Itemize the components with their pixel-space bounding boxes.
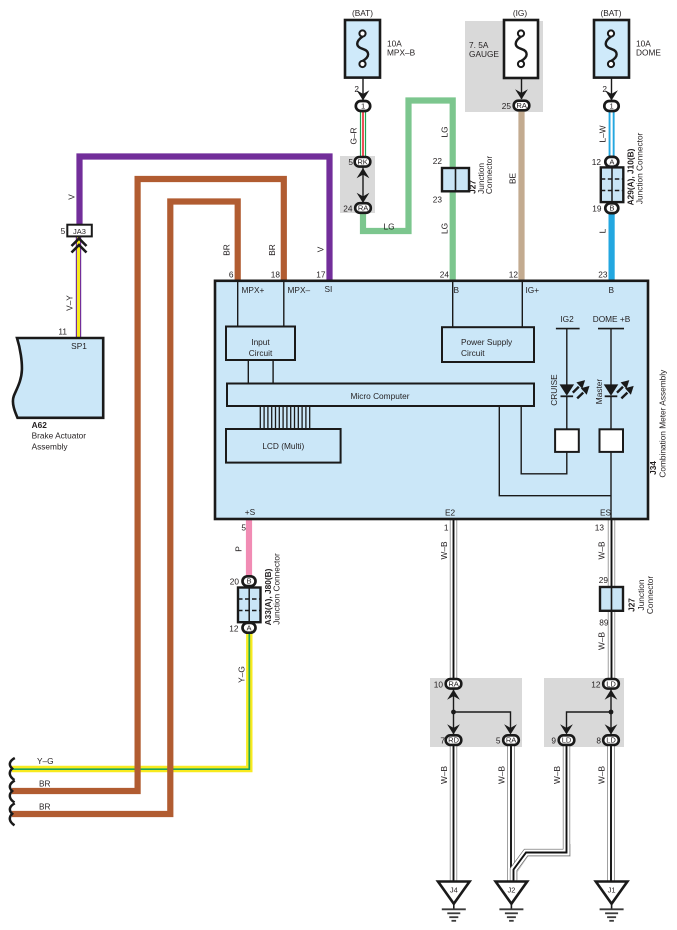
- wire W-B from RD(7) to ground J4: [450, 746, 457, 882]
- wire master LED to driver box: [610, 396, 612, 430]
- oval RA 5: [496, 724, 519, 745]
- svg-text:+S: +S: [245, 507, 256, 517]
- svg-text:RK: RK: [357, 157, 367, 166]
- IG2 terminal bar: [556, 328, 580, 330]
- svg-text:V: V: [67, 194, 77, 200]
- svg-text:1: 1: [609, 102, 613, 111]
- wire W-B from LD(9) jogging to ground J2: [514, 746, 567, 881]
- svg-text:DOME: DOME: [636, 47, 661, 57]
- svg-text:RA: RA: [516, 101, 527, 110]
- svg-text:10: 10: [434, 679, 444, 689]
- oval RD 7: [440, 724, 461, 745]
- svg-text:Master: Master: [594, 379, 604, 405]
- wire IG+ pin 12 to power supply: [521, 282, 523, 328]
- wire MPX- inside meter: [283, 282, 285, 327]
- svg-text:8: 8: [596, 736, 601, 746]
- wire B pin 24 to power supply: [452, 282, 454, 328]
- DOME +B terminal bar: [598, 328, 624, 330]
- svg-text:Circuit: Circuit: [461, 348, 485, 358]
- combination meter assembly box J34: [215, 281, 648, 519]
- svg-text:GAUGE: GAUGE: [469, 49, 499, 59]
- svg-text:V: V: [316, 246, 326, 252]
- wire cruise box to micro computer: [521, 406, 567, 474]
- svg-text:25: 25: [502, 101, 512, 111]
- svg-text:Junction Connector: Junction Connector: [635, 132, 645, 204]
- oval terminal 1 below DOME fuse: [604, 101, 618, 111]
- svg-text:LG: LG: [440, 223, 450, 234]
- svg-text:19: 19: [592, 204, 602, 214]
- connector pair RK/RA with mating arrows: [343, 157, 371, 214]
- svg-text:J34: J34: [648, 461, 658, 475]
- svg-text:P: P: [234, 546, 244, 552]
- svg-text:W–B: W–B: [597, 541, 607, 559]
- svg-text:A62: A62: [32, 420, 48, 430]
- svg-text:IG2: IG2: [560, 314, 574, 324]
- svg-text:BR: BR: [222, 244, 232, 256]
- oval LD 8: [596, 724, 618, 745]
- svg-text:23: 23: [598, 270, 608, 280]
- wire P pink from meter +S to A33 pin B(20): [246, 518, 252, 577]
- svg-text:5: 5: [241, 523, 246, 533]
- wire W-B from RA(5) to ground J2: [507, 746, 514, 882]
- svg-text:5: 5: [61, 226, 66, 236]
- svg-text:J1: J1: [608, 886, 616, 895]
- fuse 10A MPX-B: [345, 8, 416, 101]
- svg-text:(IG): (IG): [513, 8, 528, 18]
- svg-text:L–W: L–W: [598, 125, 608, 142]
- svg-text:Connector: Connector: [484, 156, 494, 195]
- svg-text:L: L: [598, 228, 608, 233]
- wire W-B from meter E2 to RA(10): [450, 518, 457, 679]
- wire Y-G from A33 pin A(12) to left edge: [12, 631, 249, 769]
- bus hatch lines between micro computer and LCD: [260, 406, 309, 429]
- LED Master: [604, 380, 634, 398]
- svg-text:LD: LD: [606, 679, 616, 688]
- svg-text:Y–G: Y–G: [236, 666, 246, 683]
- splice group ES: oval LD 12: [591, 679, 619, 734]
- gray panel behind IG fuse: [465, 21, 543, 112]
- svg-text:B: B: [247, 577, 252, 586]
- fuse 7.5A GAUGE: [469, 8, 538, 100]
- svg-text:SP1: SP1: [71, 341, 87, 351]
- wire W-B from meter ES to LD(12) via J27: [608, 518, 615, 679]
- wire L-W from oval 1 to A29 pin A(12): [609, 111, 615, 157]
- svg-text:12: 12: [509, 270, 519, 280]
- svg-text:W–B: W–B: [597, 766, 607, 784]
- wire W-B from LD(8) to ground J1: [607, 746, 614, 882]
- continuation squiggle BR upper: [10, 781, 15, 803]
- svg-text:J4: J4: [450, 886, 458, 895]
- svg-text:9: 9: [551, 736, 556, 746]
- svg-text:1: 1: [361, 102, 365, 111]
- oval terminal 1 below MPX-B fuse: [356, 101, 370, 111]
- cruise driver box: [555, 429, 579, 452]
- svg-text:(BAT): (BAT): [600, 8, 621, 18]
- junction connector A33(A), J80(B): [229, 553, 281, 633]
- svg-text:Connector: Connector: [645, 576, 655, 615]
- svg-text:BR: BR: [267, 244, 277, 256]
- svg-text:12: 12: [591, 679, 601, 689]
- svg-text:DOME +B: DOME +B: [593, 314, 631, 324]
- oval LD 9: [551, 724, 574, 745]
- svg-text:MPX–: MPX–: [288, 285, 311, 295]
- splice ES junction dot and branch: [567, 710, 614, 733]
- splice E2 junction dot and branch: [451, 710, 510, 733]
- svg-text:13: 13: [595, 523, 605, 533]
- svg-text:Input: Input: [251, 337, 270, 347]
- wire input to micro computer: [272, 360, 274, 384]
- svg-text:23: 23: [433, 195, 443, 205]
- wire G-R from fuse oval 1 to RK(5): [360, 111, 366, 158]
- svg-text:IG+: IG+: [526, 285, 540, 295]
- wire BE from RA(25) to meter pin 12: [518, 110, 524, 282]
- ground J2: [496, 882, 528, 921]
- wire master box down to ES pin: [610, 452, 612, 518]
- svg-text:5: 5: [496, 736, 501, 746]
- svg-text:MPX–B: MPX–B: [387, 47, 416, 57]
- junction connector A29(A), J10(B): [592, 132, 645, 213]
- gray panel behind E2 splice group: [430, 678, 522, 747]
- svg-text:RA: RA: [506, 736, 517, 745]
- wire V purple from JA3 to meter pin 17: [80, 157, 330, 283]
- svg-text:1: 1: [444, 523, 449, 533]
- master driver box: [600, 429, 624, 452]
- ground J4: [438, 882, 470, 921]
- svg-text:W–B: W–B: [497, 766, 507, 784]
- wire MPX+ inside meter: [237, 282, 239, 327]
- junction connector J27 (22/23): [433, 156, 494, 205]
- svg-text:Power Supply: Power Supply: [461, 337, 513, 347]
- wire V-Y from JA3 to A62 pin 11: [76, 236, 81, 338]
- svg-text:Assembly: Assembly: [32, 441, 69, 451]
- svg-text:RD: RD: [448, 736, 459, 745]
- svg-text:Circuit: Circuit: [249, 348, 273, 358]
- svg-text:LCD (Multi): LCD (Multi): [262, 441, 304, 451]
- svg-text:20: 20: [230, 577, 240, 587]
- svg-text:7: 7: [440, 736, 445, 746]
- wire BR from meter pin 6 loop to left edge: [12, 202, 238, 815]
- svg-text:BE: BE: [508, 173, 518, 185]
- svg-text:Combination Meter Assembly: Combination Meter Assembly: [657, 369, 667, 478]
- svg-text:29: 29: [599, 575, 609, 585]
- fuse 10A DOME: [594, 8, 661, 101]
- JA3 connector box: [61, 225, 92, 237]
- wire input to micro computer: [247, 360, 249, 384]
- svg-text:Y–G: Y–G: [37, 756, 54, 766]
- svg-text:BR: BR: [39, 802, 51, 812]
- shield chevrons below JA3: [72, 239, 87, 253]
- LCD block: [226, 429, 341, 463]
- svg-text:ES: ES: [600, 508, 612, 518]
- svg-text:V–Y: V–Y: [65, 295, 75, 311]
- svg-text:Micro Computer: Micro Computer: [350, 391, 409, 401]
- svg-text:(BAT): (BAT): [352, 8, 373, 18]
- svg-text:12: 12: [592, 157, 602, 167]
- wire L from A29 pin B(19) to meter pin 23: [608, 213, 614, 282]
- svg-text:W–B: W–B: [439, 541, 449, 559]
- wire BR from meter pin 18 loop to left edge: [12, 179, 284, 791]
- gray panel behind ES splice group: [544, 678, 624, 747]
- svg-text:Brake Actuator: Brake Actuator: [32, 431, 87, 441]
- svg-text:BR: BR: [39, 779, 51, 789]
- svg-text:11: 11: [58, 327, 67, 337]
- svg-text:B: B: [454, 285, 460, 295]
- svg-text:22: 22: [433, 156, 443, 166]
- wire micro computer to master branch: [499, 406, 611, 496]
- oval terminal RA 25 below GAUGE fuse: [502, 101, 530, 111]
- power supply circuit block: [442, 327, 534, 362]
- svg-text:RA: RA: [358, 204, 369, 213]
- svg-text:E2: E2: [445, 508, 456, 518]
- continuation squiggle Y-G: [10, 758, 15, 780]
- svg-text:W–B: W–B: [439, 766, 449, 784]
- svg-text:5: 5: [348, 157, 353, 167]
- wire DOME +B to master LED: [610, 329, 612, 385]
- svg-text:CRUISE: CRUISE: [549, 374, 559, 406]
- svg-text:18: 18: [271, 270, 281, 280]
- svg-text:89: 89: [599, 618, 609, 628]
- svg-text:24: 24: [440, 270, 450, 280]
- wire LG from RA(24) to meter pin 24 via J27: [363, 101, 453, 283]
- svg-text:17: 17: [316, 270, 326, 280]
- svg-text:J2: J2: [507, 886, 515, 895]
- gray panel behind RK/RA connector pair: [340, 156, 375, 213]
- svg-text:B: B: [609, 204, 614, 213]
- svg-text:6: 6: [229, 270, 234, 280]
- svg-text:B: B: [609, 285, 615, 295]
- splice group E2: oval RA 10: [434, 679, 462, 734]
- svg-text:RA: RA: [448, 679, 459, 688]
- svg-text:G–R: G–R: [349, 127, 359, 144]
- ground J1: [596, 882, 628, 921]
- svg-text:12: 12: [229, 623, 239, 633]
- input circuit block: [226, 327, 295, 361]
- svg-text:Junction Connector: Junction Connector: [272, 553, 282, 625]
- A62 brake actuator assembly box: [13, 327, 103, 452]
- svg-text:J27: J27: [627, 598, 637, 612]
- continuation squiggle BR lower: [10, 803, 15, 825]
- junction connector J27 (29/89): [599, 575, 655, 628]
- svg-text:W–B: W–B: [597, 632, 607, 650]
- svg-text:SI: SI: [325, 284, 333, 294]
- svg-text:LD: LD: [562, 736, 572, 745]
- svg-text:24: 24: [343, 204, 353, 214]
- shadow of LD(9) jog wire: [516, 844, 569, 880]
- svg-text:MPX+: MPX+: [242, 285, 265, 295]
- wire cruise LED to resistor box: [566, 396, 568, 430]
- svg-text:JA3: JA3: [73, 227, 86, 236]
- micro computer block: [227, 384, 534, 407]
- wire IG2 to cruise LED: [566, 329, 568, 385]
- svg-text:LG: LG: [384, 222, 395, 232]
- svg-text:W–B: W–B: [552, 766, 562, 784]
- LED CRUISE: [560, 380, 590, 398]
- svg-text:LD: LD: [606, 736, 616, 745]
- svg-text:LG: LG: [440, 126, 450, 137]
